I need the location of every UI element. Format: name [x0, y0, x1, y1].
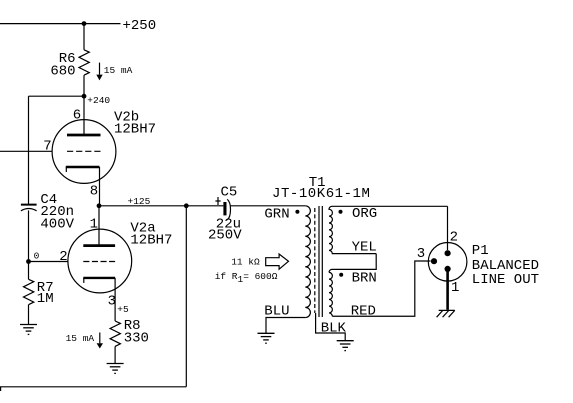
svg-text:400V: 400V	[40, 216, 74, 232]
svg-text:250V: 250V	[208, 227, 242, 243]
transformer secondary bottom winding	[329, 272, 332, 316]
current arrow 15 mA (top)	[99, 63, 101, 75]
svg-text:JT-10K61-1M: JT-10K61-1M	[272, 186, 370, 202]
V2a cathode bar	[83, 277, 115, 279]
wire R7 to ground	[28, 305, 30, 325]
capacitor C5 curved plate	[227, 199, 230, 220]
current arrow 11 kOhm (hollow)	[266, 254, 289, 269]
svg-text:680: 680	[50, 64, 75, 80]
wire RED to pin 3	[332, 261, 430, 316]
wire BLK lead	[316, 313, 346, 341]
wire +125 rail	[99, 205, 223, 207]
chassis ground (hatched)	[437, 310, 455, 317]
svg-text:+240: +240	[87, 95, 110, 106]
svg-text:C5: C5	[221, 184, 238, 200]
wire BLU lead	[266, 318, 305, 334]
XLR pin 3 dot	[431, 258, 437, 264]
wire V2b cathode lead pin 8	[99, 167, 101, 206]
svg-text:1: 1	[90, 216, 98, 232]
wire V2a cathode lead pin 3	[114, 278, 116, 321]
V2b cathode bar	[66, 166, 100, 168]
svg-text:330: 330	[124, 330, 149, 346]
transformer shield (dashed)	[314, 208, 316, 313]
junction J1 on +250 rail	[82, 21, 87, 26]
label BRN + phase dot	[339, 273, 343, 277]
wire left rail lower	[28, 210, 30, 279]
V2a plate lead pin 1	[98, 206, 100, 246]
svg-text:BRN: BRN	[352, 270, 377, 286]
junction J4 feedback tap	[184, 203, 189, 208]
tube V2b envelope	[52, 120, 116, 184]
junction J2 +240 node	[82, 94, 87, 99]
svg-text:12BH7: 12BH7	[130, 232, 172, 248]
XLR pin 1 dot	[445, 266, 451, 272]
svg-text:2: 2	[59, 249, 67, 265]
V2a cathode left tick	[83, 278, 85, 283]
resistor R7	[24, 279, 34, 304]
V2a grid (dashed)	[83, 261, 115, 263]
svg-text:3: 3	[417, 246, 425, 262]
wire left rail upper	[28, 96, 30, 204]
svg-text:P1: P1	[472, 243, 489, 259]
tube V2a envelope	[68, 229, 132, 293]
capacitor C4 top plate	[21, 204, 37, 206]
svg-text:YEL: YEL	[352, 240, 377, 256]
wire feedback vertical	[185, 206, 187, 387]
capacitor C5 positive plate (filled)	[223, 202, 226, 215]
svg-text:BLU: BLU	[264, 303, 289, 319]
XLR pin 2 dot	[445, 250, 451, 256]
resistor R6	[79, 50, 89, 75]
svg-text:+125: +125	[128, 196, 151, 207]
V2b plate lead pin 6	[83, 96, 85, 135]
svg-text:3: 3	[108, 293, 116, 309]
svg-text:+250: +250	[123, 18, 157, 34]
svg-text:8: 8	[90, 184, 98, 200]
svg-text:2: 2	[450, 230, 458, 246]
svg-text:RED: RED	[351, 304, 376, 320]
svg-text:15 mA: 15 mA	[66, 333, 95, 344]
transformer secondary top winding	[329, 206, 448, 253]
svg-text:LINE OUT: LINE OUT	[472, 272, 539, 288]
svg-text:0: 0	[34, 251, 40, 262]
wire feedback bottom	[0, 386, 186, 388]
wire ORG to XLR pin 2	[447, 206, 449, 250]
V2b cathode left tick	[65, 167, 67, 172]
svg-text:1: 1	[451, 280, 459, 296]
wire top +250 rail	[0, 23, 121, 25]
wire C5 to transformer	[231, 205, 306, 207]
ground (BLK)	[337, 341, 354, 351]
svg-text:11 kΩ: 11 kΩ	[231, 256, 260, 267]
svg-text:6: 6	[73, 108, 81, 124]
ground (R8)	[107, 364, 124, 374]
svg-text:ORG: ORG	[352, 206, 377, 222]
wire from +240 node to left rail	[29, 95, 85, 97]
svg-text:1M: 1M	[37, 291, 54, 307]
capacitor C4 curved plate	[21, 209, 37, 211]
svg-text:7: 7	[43, 139, 51, 155]
junction J5 on left rail	[26, 259, 31, 264]
label ORG + phase dot	[339, 210, 343, 214]
V2b plate bar	[67, 134, 101, 137]
ground (BLU)	[258, 333, 275, 343]
svg-text:15 mA: 15 mA	[104, 65, 133, 76]
svg-text:GRN: GRN	[264, 207, 289, 223]
transformer core lines	[319, 206, 322, 317]
wire grid pin 2	[29, 261, 69, 263]
ground (R7)	[20, 325, 37, 335]
junction J3 +125 node	[97, 203, 102, 208]
svg-text:+5: +5	[117, 304, 129, 315]
wire R6 top lead	[83, 24, 85, 50]
wire feedback left edge tick	[0, 387, 2, 391]
wire YEL jog to BRN	[329, 254, 376, 273]
V2a plate bar	[83, 244, 115, 247]
wire R8 to ground	[114, 346, 116, 363]
capacitor C5 plus sign	[215, 197, 220, 205]
V2b grid (dashed)	[67, 150, 101, 152]
svg-text:12BH7: 12BH7	[114, 122, 156, 138]
resistor R8	[110, 321, 120, 346]
wire R6 bottom lead	[83, 75, 85, 96]
svg-text:BLK: BLK	[321, 321, 347, 337]
wire XLR pin 1 to chassis ground (thick)	[446, 269, 449, 310]
connector P1 XLR shell	[428, 242, 467, 281]
wire grid pin 7	[0, 150, 52, 152]
transformer T1 primary winding	[305, 206, 310, 318]
